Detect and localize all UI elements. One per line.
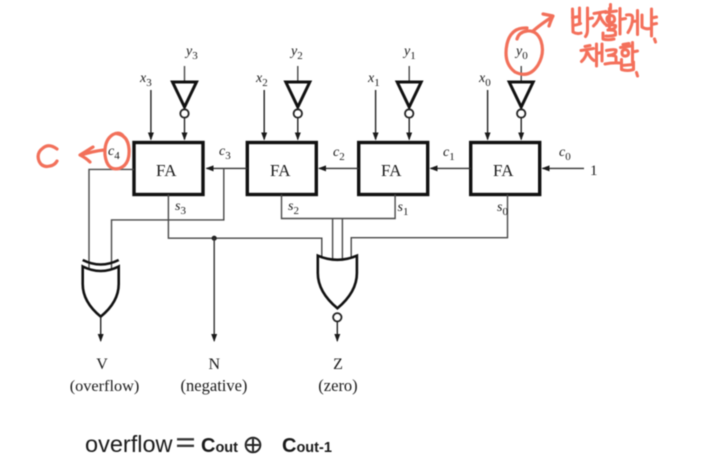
svg-text:N: N — [209, 356, 221, 373]
svg-text:(overflow): (overflow) — [70, 376, 140, 395]
svg-text:s3: s3 — [175, 199, 186, 217]
svg-text:c2: c2 — [333, 145, 345, 163]
svg-text:(negative): (negative) — [181, 376, 248, 395]
svg-text:x0: x0 — [478, 71, 491, 89]
svg-text:(zero): (zero) — [318, 376, 357, 395]
svg-text:Cout-1: Cout-1 — [282, 435, 332, 457]
svg-text:c0: c0 — [559, 145, 571, 163]
svg-text:s2: s2 — [288, 199, 299, 217]
svg-text:x2: x2 — [255, 71, 268, 89]
svg-text:FA: FA — [381, 161, 402, 180]
svg-text:FA: FA — [270, 161, 291, 180]
svg-text:c4: c4 — [108, 144, 120, 162]
svg-text:c3: c3 — [219, 144, 231, 162]
svg-text:y0: y0 — [514, 44, 528, 62]
svg-text:overflow: overflow — [85, 431, 174, 457]
svg-text:FA: FA — [493, 161, 514, 180]
svg-text:FA: FA — [156, 161, 177, 180]
svg-text:y2: y2 — [289, 44, 303, 62]
svg-text:V: V — [96, 356, 108, 373]
svg-text:Cout: Cout — [201, 435, 238, 457]
svg-text:s1: s1 — [398, 200, 409, 218]
svg-text:Z: Z — [333, 356, 343, 373]
svg-text:1: 1 — [590, 163, 598, 179]
svg-text:x3: x3 — [139, 71, 152, 89]
svg-text:y1: y1 — [402, 44, 416, 62]
svg-text:c1: c1 — [443, 145, 455, 163]
svg-text:x1: x1 — [367, 71, 380, 89]
svg-text:y3: y3 — [184, 44, 198, 62]
svg-text:s0: s0 — [497, 200, 508, 218]
